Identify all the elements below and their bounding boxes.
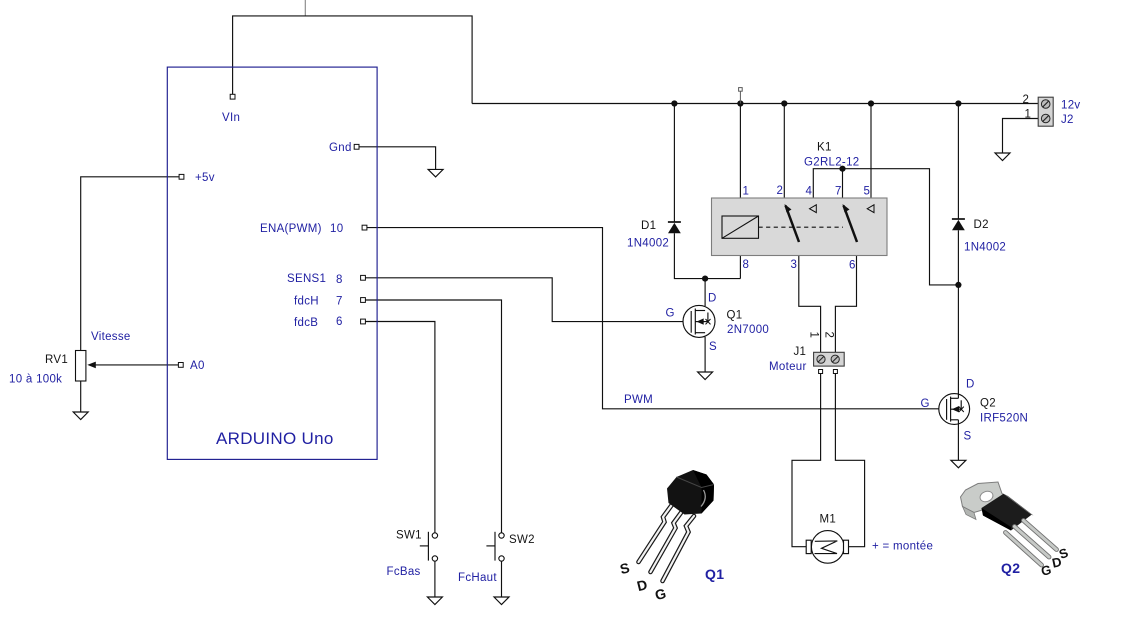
connector J1 body — [814, 352, 845, 366]
svg-text:D: D — [966, 379, 975, 391]
wire Gnd — [357, 147, 436, 170]
wire SENS1 to Q1 gate — [363, 278, 683, 322]
wire stub to off-sheet top — [304, 0, 306, 16]
junction rail/pin2 — [781, 100, 787, 106]
pin fdcB 6 endpoint — [361, 319, 366, 324]
svg-text:6: 6 — [336, 316, 343, 328]
svg-text:Vitesse: Vitesse — [91, 331, 131, 343]
svg-text:12v: 12v — [1061, 100, 1080, 112]
wire rail to D1 — [673, 104, 675, 223]
svg-text:ARDUINO Uno: ARDUINO Uno — [216, 429, 334, 448]
wire D1 to pin8 net — [674, 233, 740, 278]
photo Q2 TO-220 metal tab — [961, 482, 1006, 520]
ground (Arduino Gnd) — [428, 169, 443, 177]
ground (SW2) — [494, 597, 509, 605]
svg-text:10: 10 — [330, 223, 343, 235]
wire relay pin 4 to node — [813, 169, 958, 285]
svg-text:J2: J2 — [1061, 114, 1074, 126]
net stub marker above relay pin 1 — [739, 88, 743, 104]
svg-text:SW1: SW1 — [396, 530, 422, 542]
svg-text:Q1: Q1 — [705, 566, 724, 582]
svg-text:10 à 100k: 10 à 100k — [9, 374, 62, 386]
wire rail to D2 — [957, 104, 959, 220]
photo Q2 TO-220 body — [982, 494, 1034, 531]
connector J1 screw pin 1 — [817, 355, 825, 363]
transistor Q1 2N7000 symbol — [683, 305, 715, 337]
wire A0 to RV1 wiper — [90, 364, 181, 366]
potentiometer RV1 wiper arrow — [87, 362, 96, 369]
relay fixed contact pin 4 — [810, 205, 817, 213]
svg-text:S: S — [709, 341, 717, 353]
svg-text:1N4002: 1N4002 — [627, 238, 669, 250]
svg-text:G: G — [1040, 562, 1053, 579]
wire VIn to +12V rail — [233, 16, 473, 104]
junction rail/pin1 — [737, 100, 743, 106]
pin SENS1 8 endpoint — [361, 275, 366, 280]
wire J1 pin 1 to motor — [792, 374, 821, 547]
svg-text:D1: D1 — [641, 220, 656, 232]
svg-text:fdcH: fdcH — [294, 296, 319, 308]
svg-text:+ = montée: + = montée — [872, 541, 933, 553]
wire +5v to RV1 — [81, 177, 182, 351]
svg-text:D: D — [635, 576, 649, 594]
svg-text:1: 1 — [808, 332, 820, 339]
junction D2/Q2 drain node — [955, 282, 961, 288]
svg-text:K1: K1 — [817, 142, 832, 154]
pin Gnd endpoint — [354, 144, 359, 149]
svg-text:A0: A0 — [190, 360, 205, 372]
wire relay pin 1 — [739, 104, 741, 217]
photo Q1 TO-92 package legs — [639, 504, 695, 581]
svg-text:+5v: +5v — [195, 172, 215, 184]
diode D1 1N4002 — [668, 222, 681, 233]
svg-text:ENA(PWM): ENA(PWM) — [260, 223, 322, 235]
relay coil — [722, 216, 759, 238]
photo Q2 TO-220 legs — [1006, 521, 1057, 566]
junction rail/D1 — [671, 100, 677, 106]
svg-text:2: 2 — [777, 185, 784, 197]
switch SW1 actuator — [420, 532, 429, 561]
svg-text:G: G — [666, 308, 675, 320]
ground (SW1) — [427, 597, 442, 605]
svg-text:1N4002: 1N4002 — [964, 242, 1006, 254]
ground (J2 pin 1) — [995, 153, 1010, 161]
connector J2 body — [1038, 97, 1053, 126]
wire D2 to Q2 drain — [957, 230, 959, 394]
Arduino Uno box U1 — [167, 67, 377, 459]
pin J1-2 endpoint — [833, 370, 837, 374]
relay contact lever pin7-6 — [843, 204, 858, 242]
svg-text:8: 8 — [336, 274, 343, 286]
transistor Q2 IRF520N symbol — [939, 394, 970, 425]
relay contact lever pin2-3 — [785, 204, 800, 242]
svg-text:Gnd: Gnd — [329, 142, 352, 154]
wire relay pin 5 — [870, 104, 872, 206]
svg-text:S: S — [964, 431, 972, 443]
svg-text:G: G — [921, 398, 930, 410]
pin J1-1 endpoint — [819, 370, 823, 374]
svg-text:FcBas: FcBas — [387, 566, 421, 578]
switch SW2 contacts — [499, 533, 504, 561]
connector J2 screw pin 2 — [1041, 100, 1050, 109]
wire relay pin 7 — [842, 169, 844, 205]
junction rail/pin5 — [868, 100, 874, 106]
wire +12V rail — [472, 103, 1038, 105]
svg-text:Q1: Q1 — [727, 310, 743, 322]
pin fdcH 7 endpoint — [361, 298, 366, 303]
wire fdcH to SW2 — [363, 300, 502, 533]
junction rail/D2 — [955, 100, 961, 106]
photo Q1 TO-92 package body — [667, 470, 714, 515]
wire fdcB to SW1 — [363, 322, 435, 533]
relay K1 body — [712, 198, 888, 256]
junction pin8/Q1 drain — [702, 276, 708, 282]
pin A0 endpoint — [178, 363, 183, 368]
svg-text:VIn: VIn — [222, 112, 240, 124]
svg-text:3: 3 — [791, 259, 798, 271]
relay coil-contact dashed link — [759, 226, 844, 228]
ground (RV1) — [73, 412, 88, 420]
junction pin4-pin7 — [839, 166, 845, 172]
svg-text:RV1: RV1 — [45, 354, 68, 366]
svg-text:1: 1 — [1025, 109, 1032, 121]
wire SW2 to ground — [501, 561, 503, 597]
wire Q1 drain — [704, 279, 706, 306]
wire J2 pin 1 to ground — [1003, 119, 1039, 154]
svg-text:SW2: SW2 — [509, 534, 535, 546]
svg-text:4: 4 — [806, 186, 813, 198]
switch SW1 contacts — [432, 533, 437, 561]
svg-text:S: S — [618, 559, 631, 577]
wire Q2 source to ground — [957, 424, 959, 460]
ground (Q1 source) — [698, 372, 713, 380]
potentiometer RV1 body — [76, 351, 86, 382]
pin +5v endpoint — [179, 174, 184, 179]
svg-text:IRF520N: IRF520N — [980, 413, 1028, 425]
svg-text:Q2: Q2 — [980, 398, 996, 410]
wire relay pin 6 to J1 pin 2 — [835, 242, 856, 353]
wire relay pin 3 to J1 pin 1 — [799, 242, 821, 353]
svg-text:J1: J1 — [794, 346, 807, 358]
connector J1 screw pin 2 — [831, 355, 839, 363]
svg-text:SENS1: SENS1 — [287, 273, 326, 285]
svg-text:D: D — [708, 293, 717, 305]
diode D2 1N4002 — [952, 219, 965, 230]
switch SW2 actuator — [486, 532, 495, 561]
svg-text:Q2: Q2 — [1001, 560, 1020, 576]
svg-text:7: 7 — [336, 296, 343, 308]
svg-text:7: 7 — [835, 186, 842, 198]
svg-text:G: G — [653, 585, 668, 603]
connector J2 screw pin 1 — [1041, 114, 1050, 123]
ground (Q2 source) — [951, 460, 966, 468]
pin VIn endpoint — [230, 94, 235, 99]
svg-text:2: 2 — [823, 332, 835, 339]
svg-text:G2RL2-12: G2RL2-12 — [804, 157, 859, 169]
wire Q1 source to ground — [704, 337, 706, 372]
svg-text:8: 8 — [743, 259, 750, 271]
svg-text:Moteur: Moteur — [769, 361, 807, 373]
pin ENA(PWM) 10 endpoint — [362, 225, 367, 230]
svg-text:D2: D2 — [974, 219, 989, 231]
svg-text:PWM: PWM — [624, 394, 653, 406]
wire relay pin 2 — [783, 104, 785, 205]
svg-text:5: 5 — [864, 186, 871, 198]
wire SW1 to ground — [434, 561, 436, 597]
wire J1 pin 2 to motor — [835, 374, 864, 547]
relay fixed contact pin 5 — [867, 205, 874, 213]
wire relay pin 8 — [739, 238, 741, 278]
wire ENA(PWM) net PWM to Q2 gate — [365, 228, 939, 409]
motor M1 body — [806, 531, 848, 564]
svg-text:FcHaut: FcHaut — [458, 572, 497, 584]
svg-text:1: 1 — [743, 186, 750, 198]
svg-text:fdcB: fdcB — [294, 317, 318, 329]
svg-text:M1: M1 — [820, 514, 837, 526]
svg-text:6: 6 — [849, 260, 856, 272]
svg-text:2: 2 — [1023, 94, 1030, 106]
svg-text:2N7000: 2N7000 — [727, 324, 769, 336]
wire RV1 to ground — [80, 381, 82, 412]
